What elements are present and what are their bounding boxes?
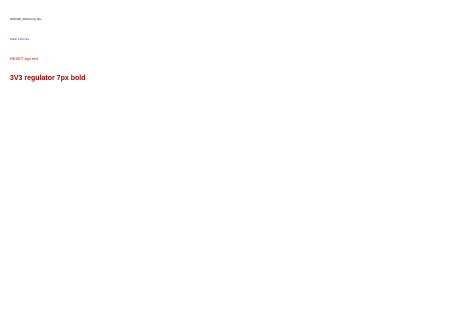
svg-text:RESET 4px red: RESET 4px red: [10, 56, 38, 61]
svg-text:3V3 regulator 7px bold: 3V3 regulator 7px bold: [10, 75, 85, 82]
svg-text:GPIO26_ADC0 tiny 3px: GPIO26_ADC0 tiny 3px: [10, 17, 42, 21]
svg-text:100nF 2.5px blue: 100nF 2.5px blue: [10, 38, 30, 41]
